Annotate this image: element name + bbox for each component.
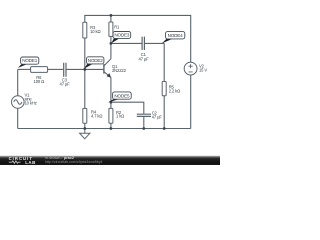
svg-text:10 kHz: 10 kHz [25,100,37,105]
svg-text:LAB: LAB [25,160,36,165]
wire R2 bottom [110,123,112,128]
node NODE1 [18,57,39,68]
node NODE4 [162,32,185,44]
capacitor C2 [137,114,151,116]
svg-text:47 µF: 47 µF [60,81,71,86]
transistor Q1 [104,59,111,78]
node junction dot emitter C2 branch [110,101,113,104]
wire NODE4 branch down to R5 [163,43,165,81]
voltage source V2 [184,62,197,75]
wire NODE1 to R6 [18,68,31,70]
node NODE3 [111,32,130,44]
node junction dot bottom R2 [110,127,113,130]
wire C3 to base [67,68,104,70]
svg-text:R1: R1 [114,25,120,30]
resistor R5 [162,82,166,96]
node junction dot bottom R5 [163,127,166,130]
wire R1 top stub [110,15,112,22]
wire C2 bottom [143,117,145,129]
wire C2 branch [111,102,144,114]
wire collector vertical [110,36,112,59]
wire top rail [85,15,191,62]
capacitor C1 [142,37,144,50]
wire bottom rail [18,128,191,130]
node junction dot collector C1 [110,42,113,45]
node NODE2 [84,57,104,69]
svg-text:NODE1: NODE1 [22,58,38,63]
svg-text:NODE4: NODE4 [168,33,184,38]
svg-text:2N2222: 2N2222 [112,68,127,73]
capacitor C3 [64,63,66,77]
svg-text:100 Ω: 100 Ω [34,79,45,84]
wire V1 bottom [17,108,19,128]
resistor R6 [31,67,48,73]
ground [80,129,90,139]
resistor R3 [83,22,87,38]
node junction dot top rail R1 [110,14,113,17]
svg-text:10 kΩ: 10 kΩ [90,29,100,34]
resistor R4 [83,108,87,123]
wire V2 bottom [190,75,192,129]
svg-text:NODE3: NODE3 [114,33,130,38]
svg-text:4.7 kΩ: 4.7 kΩ [91,114,102,119]
footer logo zigzag [9,161,21,164]
svg-text:http://circuitlab.com/c9pbs3xn: http://circuitlab.com/c9pbs3xnw5by4 [45,160,103,164]
svg-text:47 µF: 47 µF [138,56,149,61]
transistor Q1 emitter arrow [107,73,112,78]
svg-text:1 kΩ: 1 kΩ [116,114,124,119]
wire R5 bottom [163,96,165,129]
wire R4 top from base junction [84,69,86,108]
resistor R1 [109,22,113,36]
resistor R2 [109,108,113,123]
wire emitter down to R2 [110,77,112,108]
node junction dot base R3-R4 [83,68,86,71]
node NODE5 [108,92,131,103]
wire C1 row left [111,42,142,44]
svg-text:47 µF: 47 µF [152,114,163,119]
wire C1 row right [145,42,164,44]
node junction dot bottom C2 [142,127,145,130]
voltage source V1 [11,96,24,109]
node junction dot bottom R4-ground [83,127,86,130]
wire R3 bottom to base junction [84,38,86,69]
wire R4 bottom [84,123,86,128]
svg-text:NODE2: NODE2 [88,58,104,63]
svg-text:2.2 kΩ: 2.2 kΩ [169,89,180,94]
wire R6 to C3 [48,68,64,70]
svg-text:NODE5: NODE5 [114,93,130,98]
svg-text:15 V: 15 V [199,67,207,72]
wire V1 top to NODE1 [17,69,19,95]
